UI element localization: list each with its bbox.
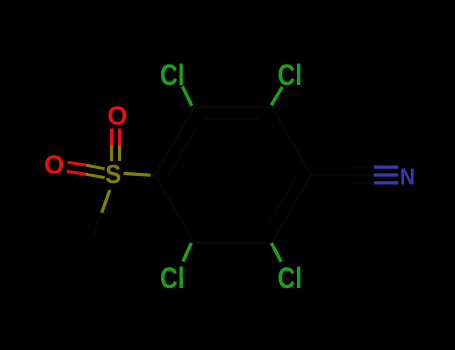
bond C-Cl bottom-right (green) [271,243,281,262]
bond S-C ring (olive) [124,173,151,175]
svg-text:Cl: Cl [278,57,303,91]
bond S-CH3 methyl (dark carbon half) [94,213,102,236]
bond C-Cl top-right (green) [271,87,282,105]
bond S-CH3 methyl (olive half) [102,190,110,213]
bond C-Cl bottom-left (green) [183,243,191,262]
triple bond C#N blue half [374,167,399,183]
double bond S=O left, red half near O [67,162,86,174]
svg-text:Cl: Cl [278,261,303,295]
double bond S=O vertical, olive half near S [112,146,120,162]
bond C-C ring to nitrile carbon (dark) [311,174,350,177]
svg-text:S: S [105,160,121,189]
svg-text:O: O [44,150,64,180]
benzene ring (carbon skeleton, very dark) [155,108,311,243]
svg-text:N: N [400,163,415,190]
svg-text:O: O [107,101,127,131]
svg-text:Cl: Cl [160,261,185,295]
double bond S=O vertical, red half near O [112,129,120,146]
double bond S=O left, olive half near S [86,165,105,178]
bond C-Cl top-left (green) [183,87,192,106]
triple bond C#N dark half [348,167,374,183]
svg-text:Cl: Cl [160,57,185,91]
